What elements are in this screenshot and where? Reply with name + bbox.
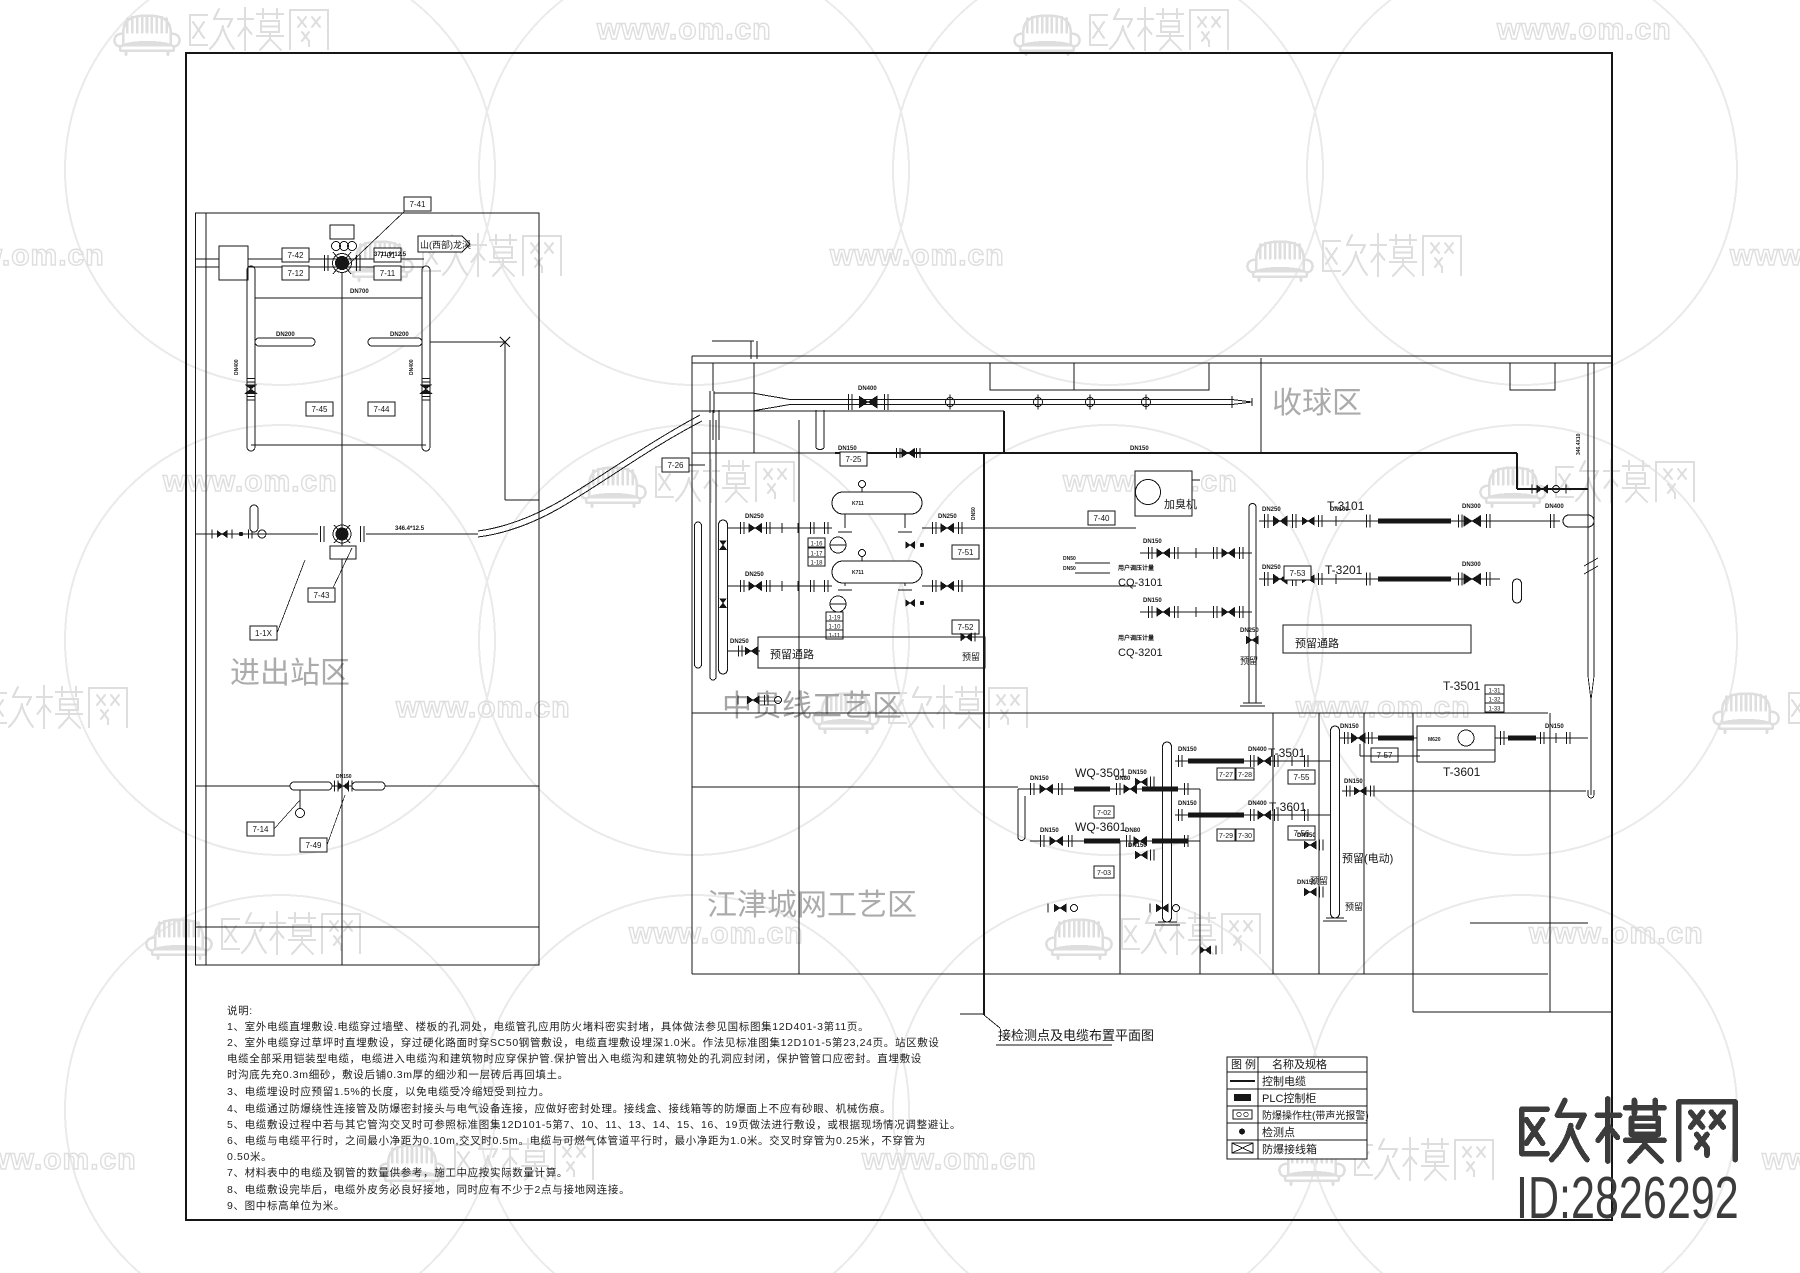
svg-text:DN50: DN50 bbox=[1063, 566, 1076, 572]
mid header lines bbox=[985, 527, 1136, 529]
svg-text:www.om.cn: www.om.cn bbox=[1496, 13, 1672, 46]
cable plan leader bbox=[960, 1013, 984, 1015]
WQ elbow pipe bbox=[1017, 789, 1019, 837]
svg-text:T-3601: T-3601 bbox=[1443, 765, 1481, 779]
svg-text:7-28: 7-28 bbox=[1238, 772, 1252, 779]
separator vessel A bbox=[832, 492, 922, 514]
svg-text:7-41: 7-41 bbox=[409, 200, 426, 209]
label box X-52 bbox=[952, 620, 979, 634]
svg-text:4、电缆通过防爆绕性连接管及防爆密封接头与电气设备连接，应做: 4、电缆通过防爆绕性连接管及防爆密封接头与电气设备连接，应做好密封处理。接线盒、… bbox=[227, 1102, 891, 1115]
svg-text:1-11: 1-11 bbox=[829, 634, 841, 640]
misc line y923 bbox=[1470, 922, 1588, 924]
svg-text:CQ-3101: CQ-3101 bbox=[1118, 577, 1163, 589]
receiver barrel instruments bbox=[946, 398, 955, 407]
train B drains bbox=[906, 600, 915, 607]
WQ-3601 train bbox=[1030, 840, 1200, 842]
lower tie line bbox=[251, 444, 426, 446]
svg-text:K711: K711 bbox=[852, 501, 864, 507]
svg-text:7-03: 7-03 bbox=[1097, 870, 1111, 877]
svg-text:7-27: 7-27 bbox=[1219, 772, 1233, 779]
svg-text:7-51: 7-51 bbox=[957, 548, 974, 557]
svg-text:DN400: DN400 bbox=[1248, 801, 1267, 807]
receiver reducer cone bbox=[752, 393, 790, 411]
label boxes X-01 X-11 bbox=[374, 248, 401, 262]
svg-text:DN250: DN250 bbox=[938, 514, 957, 520]
drain circle bbox=[299, 790, 301, 808]
long drop lines to bottom bbox=[798, 420, 800, 974]
receiver barrel body bbox=[714, 392, 752, 394]
svg-text:1、室外电缆直埋敷设.电缆穿过墙壁、楼板的孔洞处，电缆管孔应: 1、室外电缆直埋敷设.电缆穿过墙壁、楼板的孔洞处，电缆管孔应用防火堵料密实封堵，… bbox=[227, 1020, 869, 1033]
svg-text:www.om.cn: www.om.cn bbox=[0, 1143, 137, 1176]
svg-text:加臭机: 加臭机 bbox=[1164, 497, 1197, 511]
middle assembly inlet fittings bbox=[196, 533, 318, 535]
svg-text:DN150: DN150 bbox=[1178, 747, 1197, 753]
svg-text:0.50米。: 0.50米。 bbox=[227, 1150, 272, 1163]
mid riser pipe bbox=[1331, 726, 1340, 918]
svg-text:接检测点及电缆布置平面图: 接检测点及电缆布置平面图 bbox=[998, 1028, 1154, 1043]
meter outlet bbox=[1499, 731, 1501, 745]
left panel outline bbox=[196, 213, 540, 965]
svg-text:DN200: DN200 bbox=[390, 332, 409, 338]
svg-text:DN150: DN150 bbox=[1130, 446, 1149, 452]
svg-text:3、电缆埋设时应预留1.5%的长度，以免电缆受冷缩短受到拉力: 3、电缆埋设时应预留1.5%的长度，以免电缆受冷缩短受到拉力。 bbox=[227, 1085, 550, 1098]
svg-text:DN400: DN400 bbox=[409, 359, 415, 375]
svg-text:7-49: 7-49 bbox=[305, 841, 322, 850]
svg-text:时沟底先充0.3m细砂，敷设后铺0.3m厚的细沙和一层砖后再: 时沟底先充0.3m细砂，敷设后铺0.3m厚的细沙和一层砖后再回填土。 bbox=[227, 1068, 569, 1081]
svg-text:7-53: 7-53 bbox=[1289, 569, 1306, 578]
vertical feed x1261 bbox=[1260, 358, 1262, 453]
bypass return line y791 bbox=[1342, 790, 1586, 792]
東向 pipeline 346.4x12.5 bbox=[366, 533, 478, 535]
svg-text:7-40: 7-40 bbox=[1093, 514, 1110, 523]
svg-text:7-43: 7-43 bbox=[313, 591, 330, 600]
top buildings band bbox=[990, 363, 1209, 390]
reserved channel box left bbox=[758, 637, 985, 668]
svg-text:www.om.cn: www.om.cn bbox=[395, 691, 571, 724]
svg-text:www.om.cn: www.om.cn bbox=[861, 1143, 1037, 1176]
south assembly capsules bbox=[290, 782, 332, 790]
train A outlet bbox=[922, 527, 985, 529]
svg-text:控制电缆: 控制电缆 bbox=[1262, 1074, 1306, 1088]
svg-text:www.om.cn: www.om.cn bbox=[0, 239, 105, 272]
U-loop right riser pipe bbox=[421, 270, 423, 447]
svg-text:www.om.cn: www.om.cn bbox=[1761, 1143, 1800, 1176]
left edge fittings bbox=[695, 522, 702, 668]
svg-text:1-18: 1-18 bbox=[810, 561, 823, 567]
svg-text:www.om.cn: www.om.cn bbox=[596, 13, 772, 46]
label box X-14 bbox=[247, 822, 274, 836]
train A drains bbox=[906, 542, 915, 549]
svg-text:图 例: 图 例 bbox=[1231, 1057, 1256, 1071]
svg-text:www.om.cn: www.om.cn bbox=[1528, 917, 1704, 950]
site logo 欧模网 bbox=[1522, 1100, 1587, 1159]
barrel top connection bbox=[712, 363, 714, 391]
south fence line bbox=[196, 785, 539, 787]
label stack A bbox=[808, 538, 825, 548]
right tall pipe w break bbox=[1587, 363, 1589, 676]
svg-text:DN50: DN50 bbox=[971, 507, 977, 520]
label stack B bbox=[826, 612, 843, 622]
bypass elbow down bbox=[1516, 453, 1518, 489]
right panel bottom line bbox=[692, 973, 1548, 975]
svg-text:2、室外电缆穿过草坪时直埋敷设，穿过硬化路面时穿SC50钢管: 2、室外电缆穿过草坪时直埋敷设，穿过硬化路面时穿SC50钢管敷设，电缆直埋敷设埋… bbox=[227, 1036, 940, 1049]
svg-text:DN150: DN150 bbox=[1297, 833, 1316, 839]
zone boundary line y713 bbox=[692, 712, 1548, 714]
label box X-1X bbox=[250, 626, 277, 640]
svg-text:检测点: 检测点 bbox=[1262, 1125, 1295, 1139]
svg-text:7-02: 7-02 bbox=[1097, 810, 1111, 817]
east header standpipe bbox=[1248, 507, 1250, 703]
bypass valve bbox=[895, 448, 897, 458]
svg-text:DN150: DN150 bbox=[1143, 539, 1162, 545]
svg-text:PLC控制柜: PLC控制柜 bbox=[1262, 1091, 1316, 1105]
svg-text:江津城网工艺区: 江津城网工艺区 bbox=[707, 889, 917, 922]
gate valve on right riser bbox=[420, 385, 432, 394]
svg-text:T-3501: T-3501 bbox=[1443, 679, 1481, 693]
connector line down bbox=[983, 699, 985, 701]
svg-text:www.om.cn: www.om.cn bbox=[1729, 239, 1800, 272]
label box X-49 bbox=[300, 838, 327, 852]
svg-text:预留通路: 预留通路 bbox=[1295, 637, 1339, 650]
lower fittings row left bbox=[737, 696, 739, 705]
svg-text:DN150: DN150 bbox=[1340, 724, 1359, 730]
svg-text:7-42: 7-42 bbox=[287, 251, 304, 260]
bottom manifold fittings row bbox=[1047, 904, 1049, 913]
label boxes X-42 X-12 bbox=[282, 248, 309, 262]
svg-text:DN150: DN150 bbox=[1143, 598, 1162, 604]
svg-text:预留: 预留 bbox=[962, 651, 980, 662]
separator vessel B bbox=[832, 561, 922, 583]
second fence line bbox=[196, 926, 539, 928]
svg-text:CQ-3201: CQ-3201 bbox=[1118, 647, 1163, 659]
bypass end fittings bbox=[1531, 485, 1533, 494]
svg-text:1-1X: 1-1X bbox=[255, 629, 273, 638]
svg-text:M620: M620 bbox=[1428, 737, 1441, 743]
receiver barrel closure plate bbox=[709, 391, 711, 413]
meter train M620 bbox=[1339, 737, 1588, 739]
branch fittings on west riser bbox=[1149, 777, 1151, 788]
svg-text:DN100: DN100 bbox=[1330, 507, 1349, 513]
T-3201 tail drop bbox=[1513, 579, 1522, 603]
label boxes X-27 X-28 bbox=[1217, 768, 1235, 780]
svg-text:预留: 预留 bbox=[1345, 901, 1363, 912]
svg-text:7-52: 7-52 bbox=[957, 623, 974, 632]
svg-text:DN400: DN400 bbox=[234, 359, 240, 375]
svg-text:ID:2826292: ID:2826292 bbox=[1516, 1164, 1739, 1230]
dark bypass line DN150 bbox=[692, 452, 835, 454]
svg-text:预留通路: 预留通路 bbox=[770, 648, 814, 661]
filter train B bbox=[727, 585, 832, 587]
left panel inner edge line bbox=[205, 213, 207, 965]
odorizer unit 加臭机 bbox=[1135, 471, 1192, 516]
label box X-40 bbox=[1088, 511, 1115, 525]
svg-text:7-11: 7-11 bbox=[380, 269, 396, 278]
svg-text:预留(电动): 预留(电动) bbox=[1342, 852, 1393, 865]
label box X-44 bbox=[368, 402, 395, 416]
svg-text:DN700: DN700 bbox=[350, 289, 369, 295]
svg-text:说明:: 说明: bbox=[227, 1004, 253, 1017]
svg-text:DN150: DN150 bbox=[1344, 779, 1363, 785]
svg-text:1-33: 1-33 bbox=[1488, 707, 1501, 713]
legend row detection point bbox=[1239, 1129, 1245, 1135]
north tie line x984 bbox=[983, 453, 985, 1015]
svg-text:进出站区: 进出站区 bbox=[230, 657, 350, 690]
receiver pipe bbox=[790, 399, 1232, 401]
svg-text:7-30: 7-30 bbox=[1238, 833, 1252, 840]
label boxes X-29 X-30 bbox=[1217, 829, 1235, 841]
leader and label X-43 bbox=[332, 548, 352, 590]
label box X-26 outside panel bbox=[662, 458, 689, 472]
kicker stub above top edge bbox=[712, 340, 754, 342]
legend row control cable bbox=[1230, 1080, 1255, 1082]
vertical feed x1004 bbox=[1003, 411, 1005, 453]
svg-text:防爆接线箱: 防爆接线箱 bbox=[1262, 1142, 1317, 1156]
svg-text:7-44: 7-44 bbox=[373, 405, 390, 414]
svg-text:7-25: 7-25 bbox=[845, 455, 862, 464]
west riser pipe bbox=[1163, 742, 1172, 922]
svg-text:7、材料表中的电缆及钢管的数量供参考，施工中应按实际数量计算: 7、材料表中的电缆及钢管的数量供参考，施工中应按实际数量计算。 bbox=[227, 1166, 568, 1179]
right panel top edge double line bbox=[692, 355, 1612, 357]
svg-text:电缆全部采用铠装型电缆，电缆进入电缆沟和建筑物时应穿保护管.: 电缆全部采用铠装型电缆，电缆进入电缆沟和建筑物时应穿保护管.保护管出入电缆沟和建… bbox=[227, 1052, 922, 1065]
svg-text:9、图中标高单位为米。: 9、图中标高单位为米。 bbox=[227, 1199, 345, 1212]
svg-text:DN400: DN400 bbox=[1545, 504, 1564, 510]
svg-text:DN50: DN50 bbox=[1063, 556, 1076, 562]
left stub capsule DN200 bbox=[255, 338, 315, 346]
svg-text:8、电缆敷设完毕后，电缆外皮务必良好接地，同时应有不少于2点: 8、电缆敷设完毕后，电缆外皮务必良好接地，同时应有不少于2点与接地网连接。 bbox=[227, 1183, 630, 1196]
riser stub capsule bbox=[250, 505, 258, 532]
svg-text:DN150: DN150 bbox=[336, 774, 352, 780]
right stub capsule DN200 bbox=[368, 338, 422, 346]
svg-text:用户调压计量: 用户调压计量 bbox=[1117, 564, 1154, 572]
mid riser branch fittings bbox=[1318, 840, 1320, 851]
bottom edge right segment bbox=[1413, 1011, 1612, 1013]
svg-text:7-29: 7-29 bbox=[1219, 833, 1233, 840]
label box X-45 bbox=[306, 402, 333, 416]
svg-text:收球区: 收球区 bbox=[1272, 387, 1362, 420]
svg-text:DN150: DN150 bbox=[1297, 880, 1316, 886]
svg-text:DN400: DN400 bbox=[1248, 747, 1267, 753]
label box X-57 bbox=[1371, 748, 1398, 762]
mid train CQ-3101 bbox=[1140, 552, 1252, 554]
legend row junction box bbox=[1232, 1143, 1253, 1153]
drawing border frame bbox=[186, 53, 1612, 1220]
svg-text:DN200: DN200 bbox=[276, 332, 295, 338]
svg-text:DN250: DN250 bbox=[1262, 507, 1281, 513]
svg-text:K711: K711 bbox=[852, 570, 864, 576]
bottom small fittings y950 bbox=[1200, 946, 1211, 954]
T-3101 valve DN300 bbox=[1464, 516, 1481, 527]
leader to label X-41 bbox=[345, 208, 408, 268]
WQ label boxes bbox=[1094, 806, 1114, 818]
pump B below bbox=[830, 596, 846, 612]
top inlet pipe (double line) bbox=[196, 258, 424, 260]
svg-text:DN250: DN250 bbox=[1240, 628, 1259, 634]
svg-text:DN300: DN300 bbox=[1462, 562, 1481, 568]
svg-text:DN250: DN250 bbox=[745, 572, 764, 578]
svg-text:T-3201: T-3201 bbox=[1325, 563, 1363, 577]
svg-text:防爆操作柱(带声光报警): 防爆操作柱(带声光报警) bbox=[1262, 1109, 1369, 1122]
svg-text:7-45: 7-45 bbox=[311, 405, 328, 414]
svg-text:7-12: 7-12 bbox=[287, 269, 304, 278]
svg-text:1-16: 1-16 bbox=[810, 542, 823, 548]
tie to east header bbox=[430, 341, 505, 343]
svg-text:用户调压计量: 用户调压计量 bbox=[1117, 634, 1154, 642]
svg-text:DN250: DN250 bbox=[1262, 565, 1281, 571]
label box X-53 bbox=[1284, 566, 1311, 580]
standpipe reserved fitting bbox=[1246, 636, 1258, 644]
svg-text:名称及规格: 名称及规格 bbox=[1272, 1057, 1327, 1071]
svg-text:中贵线工艺区: 中贵线工艺区 bbox=[722, 690, 902, 723]
receiver riser pipe to manifold bbox=[709, 420, 711, 677]
svg-text:DN150: DN150 bbox=[1128, 770, 1147, 776]
svg-text:346.4*12.5: 346.4*12.5 bbox=[395, 526, 425, 532]
pump A below bbox=[830, 537, 846, 553]
center main vertical pipeline bbox=[341, 272, 343, 965]
svg-text:7-57: 7-57 bbox=[1376, 751, 1393, 760]
thin line under barrel bbox=[692, 410, 1004, 412]
receiver downcomer bbox=[712, 410, 714, 440]
label box X-51 bbox=[952, 545, 979, 559]
receiver end reducer bbox=[1232, 396, 1252, 408]
meter body M620 bbox=[1417, 726, 1495, 750]
receiver inlet valve DN400 bbox=[847, 394, 849, 410]
svg-text:DN150: DN150 bbox=[1030, 776, 1049, 782]
svg-text:WQ-3601: WQ-3601 bbox=[1075, 820, 1127, 834]
svg-text:www.om.cn: www.om.cn bbox=[162, 465, 338, 498]
svg-text:DN300: DN300 bbox=[1462, 504, 1481, 510]
U-loop left riser pipe bbox=[246, 270, 248, 447]
taper to thin bbox=[1588, 676, 1594, 700]
middle main valve cluster bbox=[319, 526, 321, 542]
svg-text:DN250: DN250 bbox=[730, 639, 749, 645]
reserved channel box right bbox=[1283, 625, 1471, 653]
svg-text:DN400: DN400 bbox=[858, 386, 877, 392]
svg-text:www.om.cn: www.om.cn bbox=[1295, 691, 1471, 724]
meter bypass loop bbox=[1359, 744, 1361, 756]
svg-text:DN80: DN80 bbox=[1115, 776, 1131, 782]
filter train A bbox=[727, 527, 832, 529]
svg-text:DN150: DN150 bbox=[1178, 801, 1197, 807]
svg-text:DN250: DN250 bbox=[745, 514, 764, 520]
legend row explosion-proof column bbox=[1233, 1110, 1252, 1119]
label box X-25 bbox=[840, 452, 867, 466]
svg-text:DN150: DN150 bbox=[1040, 828, 1059, 834]
svg-text:T-3501: T-3501 bbox=[1268, 746, 1306, 760]
kicker drop line bbox=[753, 363, 755, 453]
pipe label box left bbox=[219, 246, 248, 280]
label box X-56 bbox=[1288, 826, 1315, 840]
WQ-3501 train bbox=[1018, 788, 1200, 790]
svg-text:7-55: 7-55 bbox=[1293, 773, 1310, 782]
jiangjin net line y787 bbox=[692, 786, 1018, 788]
row3 stub bbox=[727, 650, 760, 652]
label box X-55 bbox=[1288, 770, 1315, 784]
gate valve on left riser bbox=[245, 385, 257, 394]
T-3101 tail capsule bbox=[1540, 520, 1548, 522]
train B outlet bbox=[922, 585, 985, 587]
legend table bbox=[1227, 1057, 1367, 1159]
main station valve cluster bbox=[330, 225, 354, 239]
svg-text:7-14: 7-14 bbox=[252, 825, 269, 834]
svg-text:www.om.cn: www.om.cn bbox=[829, 239, 1005, 272]
svg-text:6、电缆与电缆平行时，之间最小净距为0.10m,交叉时0.5: 6、电缆与电缆平行时，之间最小净距为0.10m,交叉时0.5m。电缆与可燃气体管… bbox=[227, 1134, 926, 1147]
right panel left edge bbox=[691, 356, 693, 974]
svg-text:7-26: 7-26 bbox=[667, 461, 684, 470]
reserved bowtie right bbox=[961, 633, 972, 641]
svg-text:346.4X10: 346.4X10 bbox=[1576, 433, 1582, 455]
svg-text:DN150: DN150 bbox=[1545, 724, 1564, 730]
svg-text:5、电缆敷设过程中若与其它管沟交叉时可参照标准图集12D10: 5、电缆敷设过程中若与其它管沟交叉时可参照标准图集12D101-5第7、10、1… bbox=[227, 1118, 961, 1131]
left inlet riser capsule bbox=[719, 520, 728, 674]
svg-text:DN150: DN150 bbox=[838, 446, 857, 452]
upper tie line bbox=[255, 297, 422, 299]
mid train CQ-3201 bbox=[1140, 611, 1252, 613]
svg-text:预留: 预留 bbox=[1240, 655, 1258, 666]
pipe curve to receiving area bbox=[478, 421, 702, 537]
break symbol bbox=[1584, 558, 1598, 574]
svg-text:3711.9*12.5: 3711.9*12.5 bbox=[374, 252, 407, 258]
watermark tiles bbox=[114, 16, 179, 55]
svg-text:DN80: DN80 bbox=[1125, 828, 1141, 834]
svg-text:山(西部)龙溪: 山(西部)龙溪 bbox=[420, 239, 471, 250]
pipeline name flag 山(西部)龙溪 bbox=[418, 236, 470, 252]
receiver kicker line S-bend bbox=[815, 410, 817, 448]
label stack right bbox=[1485, 685, 1504, 695]
legend row PLC cabinet bbox=[1234, 1094, 1251, 1101]
